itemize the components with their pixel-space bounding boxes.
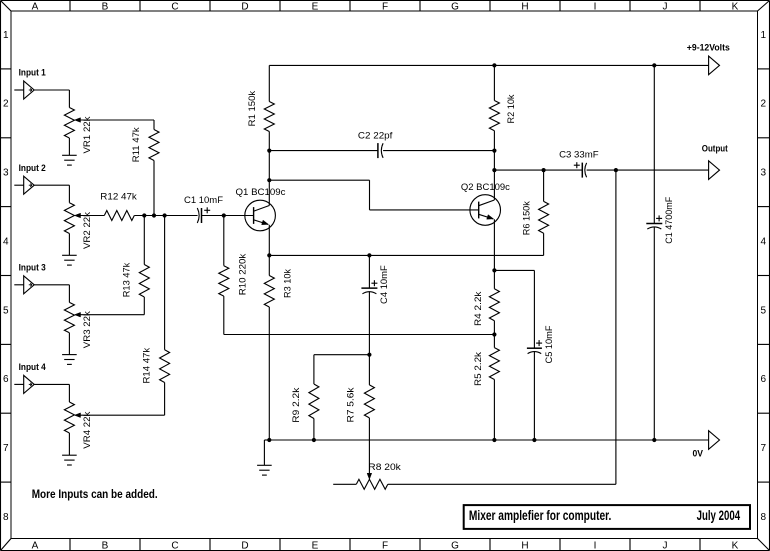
svg-text:0V: 0V: [693, 449, 704, 459]
svg-text:Input 4: Input 4: [19, 362, 46, 372]
svg-text:A: A: [32, 2, 39, 13]
svg-text:Q2 BC109c: Q2 BC109c: [461, 182, 511, 192]
svg-text:F: F: [382, 2, 388, 13]
svg-text:8: 8: [3, 512, 9, 523]
svg-text:R14 47k: R14 47k: [141, 347, 151, 383]
svg-text:VR2 22k: VR2 22k: [82, 211, 92, 249]
svg-text:R6 150k: R6 150k: [522, 201, 532, 235]
svg-text:R12 47k: R12 47k: [100, 192, 137, 202]
svg-text:B: B: [102, 2, 109, 13]
svg-text:R10 220k: R10 220k: [238, 253, 248, 295]
svg-text:C1 4700mF: C1 4700mF: [664, 196, 674, 243]
svg-text:2: 2: [761, 99, 767, 110]
svg-text:Q1 BC109c: Q1 BC109c: [236, 187, 287, 197]
svg-text:5: 5: [761, 305, 767, 316]
svg-text:2: 2: [3, 99, 9, 110]
svg-text:R7 5.6k: R7 5.6k: [345, 387, 355, 423]
svg-text:Mixer amplefier for computer.: Mixer amplefier for computer.: [469, 508, 612, 523]
svg-text:J: J: [663, 2, 668, 13]
svg-text:7: 7: [3, 443, 9, 454]
svg-text:R8 20k: R8 20k: [368, 462, 401, 472]
svg-text:C: C: [171, 541, 178, 551]
svg-text:C1 10mF: C1 10mF: [184, 195, 224, 205]
svg-text:+9-12Volts: +9-12Volts: [687, 43, 730, 53]
svg-text:I: I: [594, 2, 597, 13]
svg-text:R3 10k: R3 10k: [283, 269, 293, 298]
svg-text:E: E: [312, 541, 319, 551]
svg-text:3: 3: [3, 168, 9, 179]
svg-text:R4 2.2k: R4 2.2k: [473, 291, 483, 326]
svg-text:K: K: [732, 2, 739, 13]
svg-text:C3 33mF: C3 33mF: [559, 150, 599, 160]
svg-text:D: D: [241, 2, 248, 13]
svg-text:7: 7: [761, 443, 767, 454]
svg-text:6: 6: [3, 374, 9, 385]
svg-text:R13 47k: R13 47k: [121, 262, 131, 297]
svg-text:K: K: [732, 541, 739, 551]
svg-text:6: 6: [761, 374, 767, 385]
svg-text:F: F: [382, 541, 388, 551]
svg-text:5: 5: [3, 305, 9, 316]
svg-text:8: 8: [761, 512, 767, 523]
svg-text:VR4 22k: VR4 22k: [82, 411, 92, 449]
svg-text:Input 1: Input 1: [19, 68, 46, 78]
svg-text:G: G: [451, 2, 459, 13]
svg-text:VR1 22k: VR1 22k: [82, 116, 92, 154]
svg-text:Input 2: Input 2: [19, 163, 46, 173]
svg-text:G: G: [451, 541, 459, 551]
svg-text:C: C: [171, 2, 178, 13]
svg-text:J: J: [663, 541, 668, 551]
svg-text:4: 4: [3, 236, 9, 247]
svg-text:1: 1: [761, 30, 767, 41]
svg-text:1: 1: [3, 30, 9, 41]
svg-text:3: 3: [761, 168, 767, 179]
svg-text:R9 2.2k: R9 2.2k: [291, 387, 301, 423]
svg-text:July 2004: July 2004: [697, 508, 741, 523]
svg-text:E: E: [312, 2, 319, 13]
svg-text:H: H: [521, 2, 528, 13]
svg-text:A: A: [32, 541, 39, 551]
svg-text:R11 47k: R11 47k: [131, 127, 141, 163]
svg-text:R1 150k: R1 150k: [247, 90, 257, 126]
svg-text:C2 22pf: C2 22pf: [358, 131, 393, 141]
svg-text:R2 10k: R2 10k: [506, 94, 516, 123]
svg-text:B: B: [102, 541, 109, 551]
svg-text:Output: Output: [702, 143, 728, 153]
svg-text:I: I: [594, 541, 597, 551]
svg-text:D: D: [241, 541, 248, 551]
svg-text:R5 2.2k: R5 2.2k: [473, 351, 483, 386]
svg-text:Input 3: Input 3: [19, 263, 46, 273]
svg-text:H: H: [521, 541, 528, 551]
svg-text:VR3 22k: VR3 22k: [82, 311, 92, 349]
svg-text:C5 10mF: C5 10mF: [544, 325, 554, 364]
svg-text:More Inputs can be added.: More Inputs can be added.: [32, 487, 158, 501]
svg-text:C4 10mF: C4 10mF: [379, 265, 389, 304]
svg-text:4: 4: [761, 236, 767, 247]
